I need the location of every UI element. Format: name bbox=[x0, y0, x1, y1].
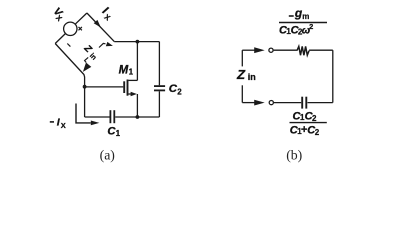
svg-text:Z: Z bbox=[236, 67, 246, 82]
svg-text:m: m bbox=[302, 12, 309, 21]
svg-text:2: 2 bbox=[309, 22, 313, 31]
svg-text:2: 2 bbox=[315, 128, 320, 137]
svg-text:2: 2 bbox=[312, 114, 317, 123]
svg-text:X: X bbox=[61, 121, 66, 130]
svg-text:2: 2 bbox=[177, 88, 182, 97]
svg-text:1: 1 bbox=[116, 129, 121, 138]
svg-text:1: 1 bbox=[129, 68, 134, 77]
svg-text:(a): (a) bbox=[100, 147, 115, 163]
svg-text:(b): (b) bbox=[286, 147, 302, 163]
svg-text:M: M bbox=[119, 65, 129, 77]
svg-text:in: in bbox=[248, 72, 256, 82]
